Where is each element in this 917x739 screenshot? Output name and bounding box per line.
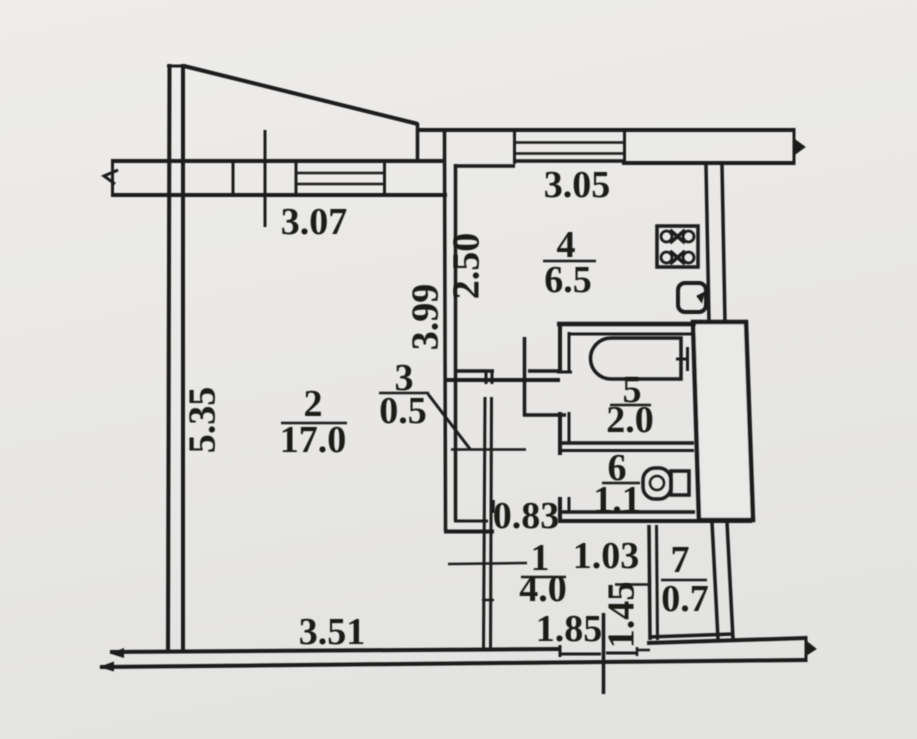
entrance door leaf [602,613,606,694]
fraction bar room6 [602,482,640,485]
kitchen window inner line 2 [514,152,624,155]
kitchen right wall inner line [722,165,725,323]
svg-text:0.83: 0.83 [493,495,560,537]
top band end cap with break [793,128,796,165]
kitchen window left tick [513,130,516,164]
bathtub tap vertical [686,347,689,371]
svg-text:3.99: 3.99 [405,284,447,351]
bottom wall top line left segment [110,649,559,652]
bathroom left wall outer upper segment [558,322,562,372]
svg-text:2.0: 2.0 [606,399,654,441]
bottom wall bottom line [100,660,806,667]
stove cross row2 a [670,251,685,264]
svg-text:0.7: 0.7 [661,578,709,620]
stove square [657,226,698,267]
stove cross row1 b [670,230,685,243]
toilet left wall inner lower segment [568,497,571,513]
balcony window inner line 2 [296,183,384,186]
fraction bar room5 [610,404,651,407]
balcony sloped front edge [184,66,418,124]
bathroom left wall inner mid segment [568,412,571,443]
top band bottom line right segment [622,161,795,165]
pointer line from label 3 to closet [428,394,470,449]
entrance left jamb [559,645,562,657]
stove burner top-left [661,231,672,242]
stove burner top-right [683,231,694,242]
kitchen bottom wall lower line [446,378,560,382]
fraction bar room2 [281,422,347,425]
toilet tank [671,471,689,495]
kitchen window right tick [623,130,626,164]
svg-text:4.0: 4.0 [519,568,567,610]
room7 bottom line [649,634,733,637]
kitchen left wall inner line [454,164,458,521]
stove burner bottom-left [661,252,672,263]
dimension tick 3.07 [264,130,267,227]
top band bottom line window-left segment [513,159,626,163]
svg-text:5.35: 5.35 [182,387,224,454]
threshold to wall connector [637,649,650,652]
stove burner bottom-right [683,252,694,263]
bathroom wall door jamb cap [557,371,572,374]
exterior wall left band top line [112,159,446,163]
entrance threshold right piece [606,652,637,655]
dimension 1.45 top tick [615,583,649,586]
room7 right wall outer [712,522,718,639]
balcony window left tick [295,160,298,196]
room7 right wall inner [727,522,733,639]
kitchen sink tap [697,292,705,303]
bathroom door leaf [523,337,527,416]
svg-text:1.03: 1.03 [573,535,640,577]
fraction bar room1 [521,576,566,579]
kitchen top interior line [454,164,515,168]
svg-text:1.1: 1.1 [593,479,641,521]
svg-text:1.85: 1.85 [536,608,603,650]
svg-text:6.5: 6.5 [544,259,592,301]
duct block [693,322,753,520]
bathroom left wall inner upper segment [568,332,571,372]
break slash top band [794,139,805,155]
svg-text:0.5: 0.5 [379,390,427,432]
bottom wall right cap [805,636,808,662]
bath toilet divider bottom line [560,449,694,452]
balcony window right tick [383,160,386,196]
entrance right jamb [636,647,639,656]
kitchen right wall outer line [706,165,709,323]
bathtub [590,338,681,379]
dimension line 0.83 top tick [451,448,526,451]
svg-text:3.07: 3.07 [281,201,348,243]
svg-text:3.51: 3.51 [299,611,366,653]
dimension tick 0.83 left [492,500,495,513]
dimension line room1 [448,563,527,564]
balcony window inner line 1 [296,172,384,175]
kitchen bottom wall upper line left of door [455,369,494,373]
fraction bar room3 [379,392,429,395]
bathroom top wall [557,322,696,327]
toilet left wall lower segment [558,497,562,521]
break slash left band [104,170,118,184]
closet3 bottom inner line [454,520,488,523]
toilet block bottom outer line [558,519,752,523]
balcony right edge [416,123,420,161]
bathroom left wall outer mid segment [558,412,562,455]
break slash bottom band [805,641,816,656]
closet3 bottom cap line [444,530,494,534]
stove cross row1 a [670,230,685,243]
kitchen left wall outer line [445,129,446,531]
balcony left wall inner line [181,64,185,652]
svg-text:2.50: 2.50 [446,233,488,300]
exterior wall left band bottom line [112,193,447,197]
left band end cap with break [111,159,114,197]
bathtub tap spout [676,358,689,361]
toilet block bottom inner line [558,510,695,514]
hall left wall inner line [491,397,492,650]
bottom wall top line right segment [647,638,806,643]
kitchen sink [678,283,706,312]
svg-text:7: 7 [671,539,690,581]
room7 left wall inner [657,525,658,640]
hall left wall outer line [484,397,486,650]
svg-text:3.05: 3.05 [544,164,611,206]
bathroom door sill line [523,413,566,417]
closet3 right wall inner upper [491,371,494,384]
stove cross row2 b [670,251,685,264]
closet3 right wall outer upper [485,371,488,384]
bath toilet divider top line [560,441,694,445]
bathroom interior top line [568,333,694,336]
fraction bar room4 [543,260,596,263]
bottom wall left arrow bottom [99,662,114,672]
svg-text:17.0: 17.0 [280,419,347,461]
toilet bowl [643,468,671,499]
balcony top cap [167,65,185,68]
exterior wall top band top line [417,128,795,132]
kitchen window inner line 1 [514,141,624,144]
hall left wall joint [482,599,494,602]
fraction bar room7 [661,579,707,582]
svg-text:1.45: 1.45 [601,582,643,649]
kitchen bottom wall upper line right of door [528,369,558,373]
room7 left wall outer [649,525,650,640]
wall seam x=233 [232,161,235,195]
bottom wall left arrow top [110,648,124,658]
toilet bowl circle [650,476,664,490]
balcony left wall outer line [168,64,170,652]
entrance threshold left piece [560,653,601,656]
